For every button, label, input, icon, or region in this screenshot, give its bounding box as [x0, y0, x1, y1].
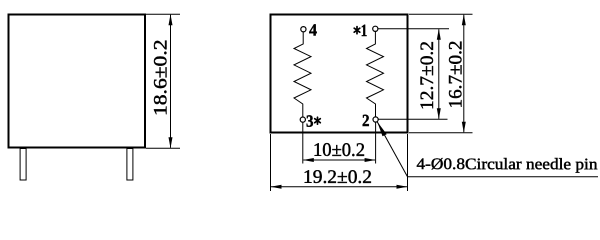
- node pin 2 terminal circle: [373, 117, 378, 122]
- dimension line 19.2: [271, 186, 407, 188]
- svg-text:3: 3: [306, 112, 314, 131]
- extension line from box top (16.7 dim top): [409, 13, 473, 15]
- svg-text:19.2±0.2: 19.2±0.2: [303, 167, 372, 188]
- svg-text:4-Ø0.8Circular needle pin: 4-Ø0.8Circular needle pin: [416, 156, 597, 173]
- extension line bottom (18.6 dim): [146, 147, 180, 149]
- svg-text:12.7±0.2: 12.7±0.2: [417, 41, 438, 110]
- svg-text:1: 1: [361, 21, 368, 40]
- extension line from box bottom (16.7 dim bottom): [409, 132, 473, 134]
- leader underline: [408, 176, 599, 178]
- extension line below box left (19.2 dim left): [270, 134, 272, 191]
- extension line below pin 2 (10 dim right): [375, 122, 377, 163]
- extension line below box right (19.2 dim right): [407, 134, 409, 191]
- dimension line 16.7: [463, 15, 465, 132]
- extension line below pin 3 (10 dim left): [302, 122, 304, 163]
- node pin *1 terminal circle: [373, 26, 378, 31]
- schematic body outline (right view): [271, 15, 408, 133]
- svg-text:4: 4: [309, 21, 317, 40]
- svg-text:2: 2: [362, 111, 370, 130]
- pin (left view, right lead): [127, 149, 133, 181]
- extension line from pin 2 (12.7 dim bottom): [378, 118, 447, 120]
- dimension line 12.7: [438, 29, 440, 119]
- node pin 4 terminal circle: [301, 27, 306, 32]
- extension line from pin *1 (12.7 dim top): [378, 28, 449, 30]
- winding W2 (pins 1-2): [367, 32, 384, 117]
- pin label *1: [354, 27, 360, 34]
- leader line to pin 2: [377, 121, 408, 176]
- dimension line 18.6: [170, 15, 172, 148]
- svg-text:10±0.2: 10±0.2: [313, 140, 365, 161]
- pin (left view, left lead): [20, 149, 26, 181]
- dimension line 10: [303, 159, 375, 161]
- svg-text:16.7±0.2: 16.7±0.2: [446, 41, 467, 109]
- transformer body outline (left view): [9, 15, 146, 148]
- node pin 3 terminal circle: [300, 117, 305, 122]
- extension line top (18.6 dim): [146, 13, 180, 15]
- winding W1 (pins 4-3): [294, 32, 311, 117]
- svg-text:18.6±0.2: 18.6±0.2: [150, 40, 171, 117]
